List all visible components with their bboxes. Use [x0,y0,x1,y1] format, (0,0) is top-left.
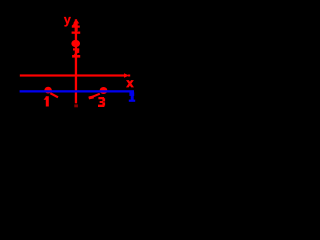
digit 3 middle [100,101,104,103]
background [0,0,150,125]
blue horizontal line [20,90,134,92]
blue digit 1 top block [129,92,134,96]
y-axis bottom dim end [74,104,78,107]
svg-text:x: x [127,76,134,90]
digit 4 diagonal [72,22,75,25]
digit 4 stem [75,21,78,31]
x-axis arrow tip stub [128,75,130,77]
y-axis top arrowhead [73,19,79,24]
digit 2 bottom bar [72,55,80,58]
digit 4 crossbar [72,26,80,28]
left point dot [44,87,51,94]
left digit 1 stem [46,96,49,106]
right leader line [89,94,100,99]
digit 3 upper right [102,98,105,101]
left digit 1 flag [44,97,47,100]
digit 2 right side [77,50,79,53]
digit 3 bottom bar [98,105,104,107]
left leader line [50,93,58,97]
right leader line thick end [89,97,94,98]
blue digit 1 serif [129,100,135,102]
x-axis arrowhead [124,73,129,77]
x-axis [20,74,125,76]
digit 3 lower right [102,102,105,105]
right point dot [100,87,108,94]
digit 2 top bar [73,48,79,50]
tick mark on y-axis [72,32,81,34]
digit 2 diagonal [73,52,78,55]
y-axis [75,19,77,103]
blue digit 1 stem [131,96,134,100]
digit 3 top bar [98,97,104,99]
point dot on y-axis [71,40,80,47]
svg-text:y: y [64,13,71,27]
